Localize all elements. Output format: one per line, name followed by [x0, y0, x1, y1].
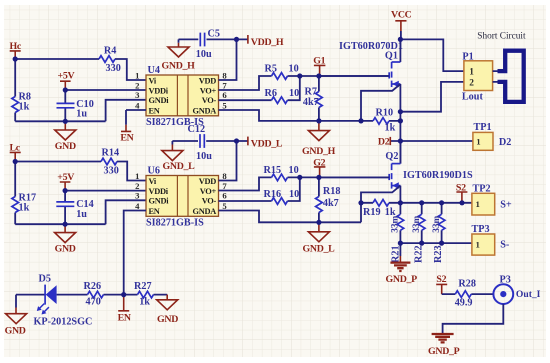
svg-text:R10: R10: [376, 108, 394, 119]
svg-text:GND: GND: [55, 141, 76, 152]
svg-text:S2: S2: [436, 274, 446, 285]
svg-text:2: 2: [469, 78, 474, 88]
svg-text:1k: 1k: [19, 202, 30, 213]
svg-text:R27: R27: [134, 281, 152, 292]
svg-text:1k: 1k: [19, 101, 30, 112]
svg-text:R14: R14: [102, 148, 120, 159]
svg-text:U4: U4: [148, 65, 160, 76]
svg-text:1u: 1u: [76, 209, 87, 220]
svg-text:R4: R4: [104, 45, 116, 56]
svg-text:EN: EN: [118, 313, 131, 324]
svg-text:GND_H: GND_H: [302, 146, 336, 157]
svg-text:R18: R18: [323, 186, 341, 197]
svg-text:33m: 33m: [391, 216, 401, 233]
svg-text:U6: U6: [148, 166, 160, 177]
svg-text:R6: R6: [265, 88, 277, 99]
svg-text:10: 10: [289, 64, 299, 75]
svg-text:S+: S+: [500, 200, 512, 211]
svg-text:33m: 33m: [412, 216, 422, 233]
svg-text:4k7: 4k7: [323, 198, 339, 209]
svg-text:VDD_L: VDD_L: [251, 138, 283, 149]
svg-text:1k: 1k: [385, 123, 396, 134]
svg-text:P1: P1: [462, 51, 473, 62]
svg-text:GND: GND: [5, 326, 26, 337]
svg-text:1: 1: [469, 68, 474, 78]
svg-text:R28: R28: [458, 279, 476, 290]
svg-text:Lout: Lout: [462, 92, 484, 103]
svg-text:4k7: 4k7: [303, 97, 319, 108]
svg-text:TP2: TP2: [473, 183, 491, 194]
svg-text:R26: R26: [84, 281, 102, 292]
svg-text:TP1: TP1: [474, 122, 492, 133]
svg-text:GND_L: GND_L: [163, 161, 196, 172]
svg-text:1: 1: [476, 239, 480, 249]
svg-text:1: 1: [476, 199, 480, 209]
svg-text:GND: GND: [55, 244, 76, 255]
svg-text:Q1: Q1: [385, 51, 398, 62]
svg-text:EN: EN: [120, 133, 133, 144]
svg-text:D5: D5: [39, 274, 51, 285]
svg-text:330: 330: [106, 63, 121, 74]
svg-text:330: 330: [104, 166, 119, 177]
svg-text:TP3: TP3: [472, 224, 490, 235]
svg-text:10: 10: [289, 165, 299, 176]
svg-text:R5: R5: [265, 64, 277, 75]
svg-text:49.9: 49.9: [455, 298, 473, 309]
svg-text:10u: 10u: [196, 49, 212, 60]
svg-text:IGT60R190D1S: IGT60R190D1S: [403, 170, 473, 181]
svg-text:R16: R16: [264, 189, 282, 200]
svg-text:R22: R22: [413, 245, 424, 263]
svg-text:GND_P: GND_P: [386, 274, 418, 285]
svg-text:Out_I: Out_I: [516, 289, 541, 300]
svg-text:1: 1: [476, 136, 480, 146]
svg-text:470: 470: [86, 297, 101, 308]
svg-text:1u: 1u: [76, 109, 87, 120]
svg-text:VDD_H: VDD_H: [251, 37, 284, 48]
svg-text:Q2: Q2: [385, 151, 398, 162]
svg-text:C12: C12: [188, 124, 206, 135]
svg-text:R15: R15: [264, 165, 282, 176]
svg-text:R19: R19: [363, 207, 381, 218]
svg-text:KP-2012SGC: KP-2012SGC: [34, 317, 93, 328]
svg-text:D2: D2: [499, 137, 511, 148]
svg-text:+5V: +5V: [58, 71, 76, 82]
svg-text:C5: C5: [208, 28, 220, 39]
svg-text:R23: R23: [433, 245, 444, 263]
svg-text:Short Circuit: Short Circuit: [477, 32, 526, 42]
svg-text:10: 10: [289, 189, 299, 200]
svg-text:10u: 10u: [196, 151, 212, 162]
svg-text:1k: 1k: [139, 297, 150, 308]
svg-text:P3: P3: [500, 275, 511, 286]
svg-text:S-: S-: [500, 240, 510, 251]
svg-text:GND_H: GND_H: [162, 61, 196, 72]
svg-text:GND: GND: [157, 314, 178, 325]
svg-text:D2: D2: [378, 137, 390, 148]
svg-text:33m: 33m: [432, 216, 442, 233]
svg-text:10: 10: [289, 88, 299, 99]
svg-text:GND_L: GND_L: [303, 243, 336, 254]
svg-text:GND_P: GND_P: [428, 346, 460, 357]
svg-text:VCC: VCC: [391, 10, 412, 21]
